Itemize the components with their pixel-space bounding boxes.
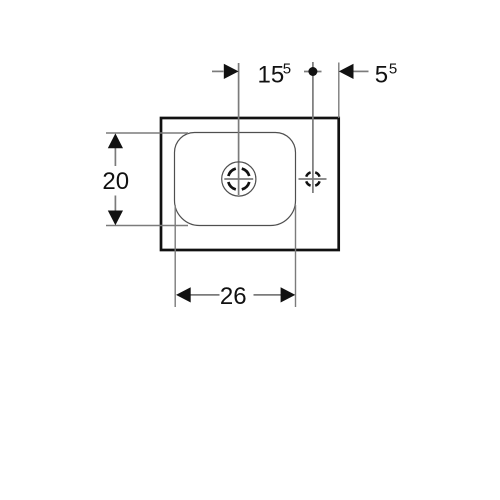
dim 26 left extension line: [174, 205, 176, 307]
dim 15.5 arrow right: [224, 64, 239, 79]
tap hole circle arcs: [306, 172, 319, 185]
dim 20 arrow up: [108, 133, 123, 148]
dim 26 line left segment: [191, 294, 220, 296]
dim 26 arrow right: [281, 287, 296, 302]
drain vertical centerline: [238, 63, 240, 195]
tap hole horizontal crosshair: [299, 178, 327, 180]
svg-text:5: 5: [389, 61, 397, 78]
drain horizontal crosshair: [224, 178, 253, 180]
dot tick line: [304, 71, 322, 73]
dim 20 line lower segment: [114, 196, 116, 212]
dim 26 right extension line: [295, 205, 297, 307]
svg-text:26: 26: [220, 283, 247, 310]
basin inner bowl outline: [175, 133, 296, 226]
dim 26 arrow left: [176, 287, 191, 302]
dim 26 line right segment: [254, 294, 282, 296]
dim 20 bottom extension line: [106, 225, 188, 227]
dim terminator dot on tap centerline: [308, 67, 317, 76]
svg-text:20: 20: [102, 168, 129, 195]
dim 5.5 arrow left: [339, 64, 354, 79]
dim 20 arrow down: [108, 211, 123, 226]
dim 20 top extension line: [106, 132, 188, 134]
dim 5.5 extension line at rim right edge: [338, 63, 340, 119]
tap hole vertical centerline: [312, 62, 314, 193]
svg-text:5: 5: [375, 62, 388, 89]
washbasin outer rim rectangle: [161, 118, 339, 250]
drain outer circle: [222, 162, 256, 196]
dim 20 line upper segment: [114, 147, 116, 166]
svg-text:5: 5: [283, 61, 291, 78]
svg-text:15: 15: [258, 62, 285, 89]
drain thick circle arcs: [228, 169, 249, 190]
dim 5.5 line right segment: [354, 70, 369, 72]
dim 15.5 line left segment: [212, 70, 224, 72]
